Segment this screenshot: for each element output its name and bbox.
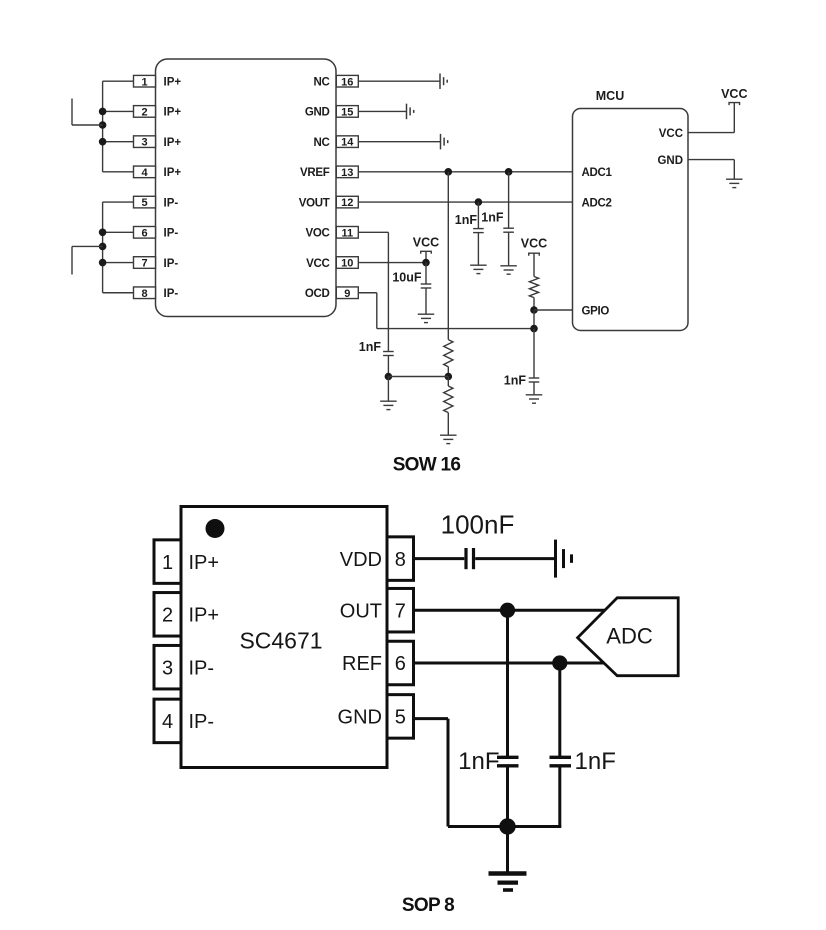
pin 6 box <box>387 641 414 685</box>
pin 5 box <box>387 695 414 739</box>
wire C7 top <box>506 610 509 757</box>
svg-text:6: 6 <box>395 653 406 675</box>
ground MCU <box>726 179 743 187</box>
wire C5 bottom <box>533 382 535 395</box>
svg-text:5: 5 <box>141 197 147 209</box>
svg-text:1nF: 1nF <box>504 374 527 388</box>
node junction IP+ mid <box>99 121 107 129</box>
svg-text:1nF: 1nF <box>481 211 504 225</box>
wire junction link C3-R1 <box>388 376 448 378</box>
wire MCU GND <box>688 159 734 161</box>
power VCC symbol <box>421 251 432 254</box>
pin 15 box <box>336 106 358 118</box>
ground C1 <box>470 265 487 273</box>
svg-text:13: 13 <box>341 167 353 179</box>
svg-text:11: 11 <box>341 227 353 239</box>
capacitor C4 10uF <box>421 284 432 288</box>
pin 16 box <box>336 75 358 87</box>
wire C3 bottom <box>387 356 389 377</box>
svg-text:10: 10 <box>341 258 353 270</box>
ground main <box>489 874 527 891</box>
node junction OUT <box>500 603 515 618</box>
svg-text:1nF: 1nF <box>575 748 616 775</box>
wire pin 2 stub <box>103 110 134 112</box>
svg-text:3: 3 <box>162 657 173 679</box>
svg-text:7: 7 <box>395 600 406 622</box>
pin 1 box <box>154 540 181 584</box>
ground VDD rotated <box>556 540 572 578</box>
wire R2 top link <box>447 377 449 387</box>
pin 2 box <box>154 593 181 637</box>
svg-text:IP+: IP+ <box>164 137 182 149</box>
wire OCD horizontal stub <box>358 292 377 294</box>
svg-text:IP+: IP+ <box>164 77 182 89</box>
svg-text:NC: NC <box>313 77 329 89</box>
svg-text:IP-: IP- <box>164 197 179 209</box>
wire C4 bottom <box>425 288 427 314</box>
svg-text:IP-: IP- <box>189 657 215 679</box>
wire pin 4 stub <box>103 171 134 173</box>
svg-text:SC4671: SC4671 <box>239 627 322 653</box>
node junction pin7 <box>99 259 107 267</box>
pin 11 box <box>336 227 358 239</box>
ground C4 <box>418 314 435 322</box>
svg-text:1: 1 <box>141 76 147 88</box>
wire R3 to GPIO <box>533 298 535 310</box>
svg-text:IP-: IP- <box>189 711 215 733</box>
wire IP+ external horizontal <box>72 124 103 126</box>
wire ground drop <box>506 827 509 872</box>
pin 9 box <box>336 287 358 299</box>
power VCC2 symbol <box>529 253 540 256</box>
pin 3 box <box>154 645 181 689</box>
svg-text:15: 15 <box>341 107 353 119</box>
wire GPIO to MCU <box>534 309 573 311</box>
capacitor C3 1nF <box>383 352 394 356</box>
IC U1 SOW16 body <box>156 59 337 317</box>
pin 8 box <box>134 287 156 299</box>
IC U2 MCU body <box>573 109 689 331</box>
node junction GND <box>499 818 515 834</box>
svg-text:REF: REF <box>342 653 382 675</box>
node junction VREF-R <box>445 168 453 176</box>
power VCC3 symbol <box>729 103 740 106</box>
wire pin 3 stub <box>103 141 134 143</box>
node junction pin6 <box>99 229 107 237</box>
wire C1 bottom <box>477 233 479 266</box>
wire MCU VCC <box>688 132 734 134</box>
svg-text:14: 14 <box>341 137 354 149</box>
svg-text:IP+: IP+ <box>189 605 220 627</box>
svg-text:3: 3 <box>141 137 147 149</box>
wire IP+ external vertical <box>71 99 73 126</box>
capacitor C8 1nF <box>550 757 572 766</box>
svg-text:VCC: VCC <box>413 235 439 249</box>
wire NC pin16 <box>358 80 440 82</box>
wire VOUT to ADC2 <box>358 201 572 203</box>
svg-text:GND: GND <box>338 707 382 729</box>
svg-text:100nF: 100nF <box>441 510 515 540</box>
pin 6 box <box>134 227 156 239</box>
wire pin 1 stub <box>103 80 134 82</box>
pin 4 box <box>154 699 181 743</box>
svg-text:VCC: VCC <box>521 236 547 250</box>
pin 3 box <box>134 136 156 148</box>
wire R1 to junction <box>447 367 449 377</box>
svg-text:ADC2: ADC2 <box>582 197 612 209</box>
wire VCC pin10 <box>358 262 426 264</box>
wire R2 to ground <box>447 413 449 436</box>
svg-text:1: 1 <box>162 552 173 574</box>
ground NC16 rotated <box>440 73 447 89</box>
pin 12 box <box>336 196 358 208</box>
wire pin 8 stub <box>103 292 134 294</box>
wire MCU VCC up <box>733 103 735 133</box>
svg-text:MCU: MCU <box>596 89 624 103</box>
svg-text:2: 2 <box>141 107 147 119</box>
wire C3 to ground <box>387 377 389 402</box>
svg-text:IP+: IP+ <box>164 107 182 119</box>
svg-text:VCC: VCC <box>721 87 747 101</box>
wire IP- external vertical <box>71 246 73 274</box>
wire VDD2 <box>475 557 554 560</box>
wire C2 bottom <box>508 232 510 266</box>
node junction GPIO <box>530 306 538 314</box>
svg-text:16: 16 <box>341 76 353 88</box>
node junction REF <box>552 655 567 670</box>
ground NC14 rotated <box>441 134 448 150</box>
svg-text:10uF: 10uF <box>392 271 422 285</box>
ground C3 <box>380 401 397 409</box>
wire MCU GND down <box>733 160 735 180</box>
pin 7 box <box>387 588 414 632</box>
wire VDD <box>414 557 465 560</box>
wire bus IP+ vertical <box>102 81 104 172</box>
svg-text:GND: GND <box>305 107 330 119</box>
wire pin 7 stub <box>103 262 134 264</box>
svg-text:8: 8 <box>395 549 406 571</box>
wire GND down <box>447 719 450 827</box>
resistor R2 <box>444 386 453 413</box>
svg-text:SOP 8: SOP 8 <box>402 895 454 916</box>
wire VREF to ADC1 <box>358 171 572 173</box>
node junction pin3 <box>99 138 107 146</box>
node junction IP- mid <box>99 243 107 251</box>
wire pin 6 stub <box>103 231 134 233</box>
node junction R1-R2 <box>445 373 453 381</box>
IC U3 pin1 marker dot <box>206 519 225 538</box>
wire C4 top <box>425 263 427 284</box>
capacitor C5 1nF <box>529 378 540 382</box>
IC U3 SC4671 body <box>181 507 387 768</box>
pin 4 box <box>134 166 156 178</box>
wire C8 bottom <box>558 766 561 827</box>
wire GND stub <box>414 717 449 720</box>
svg-text:1nF: 1nF <box>359 340 382 354</box>
node junction VREF-C2 <box>505 168 513 176</box>
pin 2 box <box>134 106 156 118</box>
svg-text:GPIO: GPIO <box>582 305 610 317</box>
svg-text:8: 8 <box>141 288 147 300</box>
wire pin 5 stub <box>103 201 134 203</box>
node junction GPIO-OCD <box>530 325 538 333</box>
svg-text:ADC: ADC <box>606 624 653 649</box>
wire C2 top <box>508 172 510 228</box>
wire IP- external horizontal <box>72 245 103 247</box>
pin 13 box <box>336 166 358 178</box>
node junction VCC-C4 <box>422 259 430 267</box>
svg-text:9: 9 <box>344 288 350 300</box>
svg-text:1nF: 1nF <box>455 213 478 227</box>
wire bus IP- vertical <box>102 202 104 293</box>
wire GPIO down <box>533 310 535 329</box>
wire to C5 <box>533 329 535 378</box>
ADC block <box>578 598 679 676</box>
svg-text:IP+: IP+ <box>189 552 220 574</box>
capacitor C1 1nF <box>473 229 484 233</box>
svg-text:4: 4 <box>141 167 148 179</box>
svg-text:OUT: OUT <box>340 600 382 622</box>
capacitor C7 1nF <box>497 757 519 766</box>
svg-text:6: 6 <box>141 227 147 239</box>
svg-text:IP+: IP+ <box>164 167 182 179</box>
wire REF to ADC <box>414 662 604 665</box>
node junction C3-R2 <box>385 373 393 381</box>
svg-text:OCD: OCD <box>305 288 330 300</box>
svg-text:IP-: IP- <box>164 288 179 300</box>
wire VOC vertical <box>387 232 389 351</box>
svg-text:2: 2 <box>162 605 173 627</box>
ground GND15 rotated <box>407 104 414 120</box>
wire NC pin14 <box>358 141 440 143</box>
resistor R1 <box>444 340 453 367</box>
wire OCD to GPIO node <box>377 328 534 330</box>
svg-text:4: 4 <box>162 711 173 733</box>
wire OUT to ADC <box>414 609 607 612</box>
ground C2 <box>500 266 516 274</box>
node junction VOUT-C1 <box>475 198 483 206</box>
wire VREF to R1 <box>447 172 449 340</box>
svg-text:VOC: VOC <box>305 228 329 240</box>
svg-text:IP-: IP- <box>164 258 179 270</box>
pin 14 box <box>336 136 358 148</box>
capacitor C6 100nF <box>466 548 474 569</box>
svg-text:VREF: VREF <box>300 167 330 179</box>
node junction pin2 <box>99 108 107 116</box>
wire VCC2 to R3 <box>533 253 535 276</box>
wire VCC drop <box>425 251 427 262</box>
pin 5 box <box>134 196 156 208</box>
svg-text:VDD: VDD <box>340 549 382 571</box>
wire C7 bottom <box>506 766 509 827</box>
svg-text:12: 12 <box>341 197 353 209</box>
svg-text:1nF: 1nF <box>458 748 499 775</box>
svg-text:GND: GND <box>657 155 683 167</box>
svg-text:5: 5 <box>395 707 406 729</box>
wire GND bottom <box>448 825 561 828</box>
pin 7 box <box>134 257 156 269</box>
ground R2 <box>440 435 457 443</box>
svg-text:7: 7 <box>141 258 147 270</box>
svg-text:VOUT: VOUT <box>299 197 330 209</box>
svg-text:NC: NC <box>313 137 329 149</box>
wire OCD vertical <box>376 293 378 329</box>
wire C8 top <box>558 663 561 757</box>
svg-text:IP-: IP- <box>164 228 179 240</box>
capacitor C2 1nF <box>503 228 514 232</box>
ground C5 <box>526 395 543 403</box>
resistor R3 <box>529 277 538 298</box>
svg-text:SOW 16: SOW 16 <box>393 455 461 476</box>
wire C1 top <box>477 202 479 229</box>
pin 1 box <box>134 75 156 87</box>
svg-text:ADC1: ADC1 <box>582 167 613 179</box>
wire VOC horizontal <box>358 231 388 233</box>
wire GND pin15 <box>358 110 406 112</box>
pin 10 box <box>336 257 358 269</box>
svg-text:VCC: VCC <box>659 128 683 140</box>
svg-text:VCC: VCC <box>306 258 329 270</box>
pin 8 box <box>387 537 414 581</box>
